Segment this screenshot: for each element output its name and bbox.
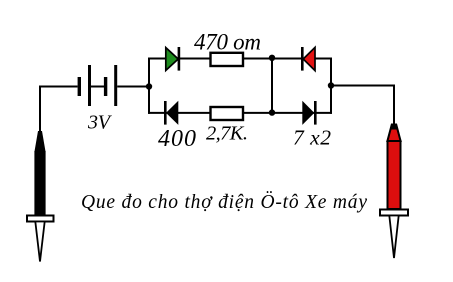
svg-text:470 om: 470 om xyxy=(194,30,261,55)
svg-text:400: 400 xyxy=(158,126,196,152)
svg-text:Que đo cho thợ điện Ö-tô Xe má: Que đo cho thợ điện Ö-tô Xe máy xyxy=(81,192,367,213)
svg-text:2,7K.: 2,7K. xyxy=(206,123,248,145)
svg-text:7 x2: 7 x2 xyxy=(293,126,331,150)
svg-text:3V: 3V xyxy=(87,112,113,134)
